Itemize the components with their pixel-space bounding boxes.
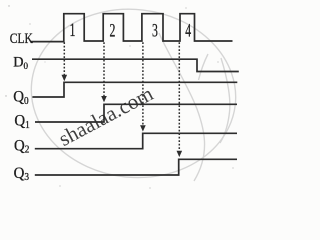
svg-text:CLK: CLK	[10, 29, 33, 46]
svg-text:3: 3	[152, 21, 158, 41]
svg-text:4: 4	[185, 21, 191, 41]
svg-text:1: 1	[70, 20, 76, 40]
svg-text:2: 2	[109, 21, 115, 41]
